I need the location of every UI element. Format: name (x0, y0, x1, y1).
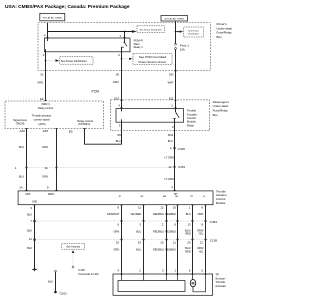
svg-text:YEL/RED: YEL/RED (130, 212, 141, 216)
svg-text:2: 2 (171, 185, 173, 189)
ground G101 (54, 291, 57, 294)
svg-text:2: 2 (118, 53, 120, 57)
svg-text:B14: B14 (168, 133, 174, 137)
wire TAC module pin 8 to throttle motor pin 5 (ORN) (205, 205, 207, 274)
svg-text:C454: C454 (210, 220, 218, 224)
svg-text:3: 3 (43, 53, 45, 57)
under-hood / driver's under-dash fuse/relay box (dashed) (38, 23, 211, 71)
svg-text:See Power: See Power (188, 29, 199, 32)
in-line connector C454 dotted line (35, 220, 209, 222)
svg-text:G101: G101 (60, 292, 68, 296)
svg-text:Distribution: Distribution (188, 33, 200, 36)
svg-text:12: 12 (29, 237, 33, 241)
see power distribution box left (45, 60, 47, 62)
svg-text:D6: D6 (117, 133, 121, 137)
throttle actuator control module relay (116, 109, 184, 123)
TP sensor inner box (118, 281, 185, 292)
svg-text:(Terminals 12-09): (Terminals 12-09) (78, 272, 98, 276)
svg-text:11: 11 (45, 166, 48, 170)
svg-text:Relay control: Relay control (38, 106, 54, 110)
relay coil stubs (47, 38, 49, 41)
svg-text:S23: S23 (169, 73, 174, 77)
svg-text:C109: C109 (78, 268, 85, 272)
connector C325 (174, 147, 176, 149)
svg-text:GRN: GRN (37, 81, 43, 85)
svg-text:GRN: GRN (113, 80, 119, 84)
connector C138 terminals on wires (121, 239, 123, 241)
svg-text:BLU: BLU (186, 212, 191, 216)
wire A26 (BLU) (26, 129, 28, 191)
svg-text:(APS): (APS) (39, 122, 46, 126)
svg-text:4: 4 (170, 147, 172, 151)
svg-text:YEL: YEL (198, 249, 203, 253)
pin 1 stub (124, 32, 126, 39)
svg-text:RED: RED (185, 249, 191, 253)
see grounds box (62, 243, 85, 249)
svg-text:8: 8 (201, 206, 203, 210)
svg-text:GRN: GRN (42, 145, 48, 149)
svg-text:E5: E5 (69, 129, 73, 133)
svg-text:See Power Distribution: See Power Distribution (140, 28, 163, 31)
svg-text:3: 3 (119, 124, 121, 128)
svg-text:6: 6 (174, 223, 176, 227)
svg-text:4: 4 (118, 104, 120, 108)
arrow to see pcm controlled box (121, 58, 123, 60)
wire feed to relay (48, 23, 133, 32)
svg-text:A26: A26 (20, 129, 26, 133)
svg-text:Throttle actuator: Throttle actuator (32, 113, 52, 117)
svg-text:7: 7 (30, 219, 32, 223)
svg-text:X8: X8 (116, 72, 120, 76)
PCM box (dashed) (5, 101, 103, 129)
pin 4 stub (47, 32, 49, 39)
svg-text:BLK: BLK (48, 279, 53, 283)
motor (192, 274, 194, 280)
svg-text:C325: C325 (178, 147, 186, 151)
see power distribution box 2 (184, 27, 204, 37)
svg-text:5: 5 (201, 269, 203, 273)
svg-text:RED/BLU: RED/BLU (153, 247, 164, 251)
wire TAC module pin 12 to throttle actuator pin 3 (RED/BLU) (166, 205, 168, 274)
svg-text:6: 6 (117, 223, 119, 227)
in-line connector C138 dotted line (35, 239, 209, 241)
svg-text:MM: MM (163, 196, 167, 198)
svg-text:BLK: BLK (27, 228, 32, 232)
svg-text:RED: RED (185, 231, 191, 235)
svg-text:BLU: BLU (19, 174, 24, 178)
wire E5 jog to TAC relay pin 3 (85, 122, 122, 144)
svg-text:3: 3 (30, 206, 32, 210)
wire TAC module pin 1 to throttle motor pin 6 (BLU) (192, 205, 194, 274)
svg-text:E9: E9 (40, 97, 44, 101)
connector C351 (174, 166, 176, 168)
svg-text:ORN: ORN (198, 212, 204, 216)
passenger's under-dash fuse/relay box (dashed) (111, 100, 210, 131)
wire TAC module pin 10 to throttle actuator pin 1 (RED/BLK) (177, 205, 179, 274)
throttle actuator control module box (18, 191, 213, 205)
svg-text:YEL: YEL (198, 231, 203, 235)
junction (124, 31, 126, 33)
wire TAC relay pin2 down to TAC module (174, 122, 176, 191)
fuse 1 symbol (175, 43, 177, 45)
svg-text:GND: GND (32, 201, 37, 203)
svg-text:2: 2 (172, 125, 174, 129)
svg-text:8: 8 (117, 206, 119, 210)
connector C454 terminals on wires (121, 220, 123, 222)
svg-text:LT GRN: LT GRN (165, 177, 174, 181)
svg-text:GRN: GRN (114, 230, 120, 234)
svg-text:12: 12 (168, 165, 172, 169)
TP sensor / throttle actuator box (113, 274, 213, 295)
svg-text:8: 8 (201, 223, 203, 227)
svg-text:3: 3 (139, 223, 141, 227)
svg-text:9: 9 (47, 186, 49, 190)
svg-text:MCP: MCP (25, 194, 31, 196)
svg-text:21: 21 (200, 241, 204, 245)
svg-text:11: 11 (173, 241, 176, 245)
svg-text:PA: PA (175, 195, 178, 198)
svg-text:MP: MP (141, 196, 145, 198)
svg-text:Fuse 1: Fuse 1 (180, 43, 190, 47)
in-line connector C351 dotted line (27, 167, 175, 169)
relay pins (121, 100, 123, 109)
svg-text:4: 4 (117, 269, 119, 273)
svg-text:10: 10 (173, 206, 177, 210)
svg-text:20: 20 (187, 241, 191, 245)
wire relay pin3 to PCM (GRN) (45, 52, 47, 101)
svg-text:C138: C138 (210, 239, 218, 243)
svg-text:1: 1 (119, 34, 121, 38)
svg-text:RED/BLK: RED/BLK (165, 247, 176, 251)
svg-text:Throttle: Throttle (187, 109, 197, 113)
svg-text:6: 6 (189, 269, 191, 273)
svg-text:Relay: Relay (187, 123, 195, 127)
relay switch (175, 109, 177, 113)
svg-text:12: 12 (160, 206, 164, 210)
wire below fuse (175, 49, 177, 100)
hot at all times right label box (161, 16, 188, 22)
svg-text:WHT: WHT (168, 80, 174, 84)
svg-text:2: 2 (139, 269, 141, 273)
svg-text:1: 1 (189, 206, 191, 210)
svg-text:LT GRN: LT GRN (165, 156, 174, 160)
svg-text:4: 4 (44, 34, 46, 38)
svg-text:RED/BLK: RED/BLK (165, 230, 176, 234)
C109 connector (72, 266, 74, 268)
svg-text:GRN: GRN (114, 247, 120, 251)
svg-text:See Grounds: See Grounds (66, 246, 80, 249)
svg-text:10: 10 (160, 241, 164, 245)
svg-text:11: 11 (138, 206, 141, 210)
ground wire from TAC module pin 3 (34, 205, 36, 270)
coil stubs (121, 109, 123, 112)
svg-text:GRN/WHT: GRN/WHT (107, 212, 120, 216)
svg-text:BLU: BLU (136, 230, 141, 234)
svg-text:control signal: control signal (34, 118, 50, 122)
svg-text:2: 2 (162, 223, 164, 227)
hot at all times left label box (40, 13, 65, 20)
svg-text:A25: A25 (43, 129, 49, 133)
svg-text:HOT AT ALL TIMES: HOT AT ALL TIMES (43, 17, 63, 20)
arrow to see power distribution (132, 30, 137, 33)
svg-text:RED/BLU: RED/BLU (153, 212, 164, 216)
svg-text:Actuator: Actuator (187, 112, 197, 116)
pin stubs into sensor (121, 274, 123, 281)
svg-text:1: 1 (171, 104, 173, 108)
ground wire 2 to G101 (55, 270, 57, 272)
svg-text:10A: 10A (180, 48, 185, 52)
wire A25 (GRN) (56, 129, 58, 191)
svg-text:PB: PB (190, 196, 193, 198)
svg-text:Box: Box (217, 35, 223, 39)
svg-text:Module: Module (187, 120, 196, 124)
svg-text:M: M (192, 282, 195, 286)
svg-text:BLU: BLU (19, 145, 24, 149)
svg-text:33: 33 (138, 241, 142, 245)
svg-text:SERO: SERO (48, 194, 55, 196)
svg-text:C351: C351 (178, 165, 186, 169)
wire entry ticks (25, 128, 85, 130)
svg-text:NL: NL (119, 196, 122, 198)
svg-text:BLU: BLU (168, 139, 173, 143)
svg-text:1: 1 (15, 166, 17, 170)
svg-text:Module: Module (216, 201, 226, 205)
wire relay pin2 down to TAC relay (YEL) (121, 52, 123, 100)
svg-text:32: 32 (116, 241, 120, 245)
see pcm controlled power source circuit box (133, 54, 172, 65)
svg-text:See PCM Controlled: See PCM Controlled (139, 55, 167, 59)
relay switch (124, 38, 126, 42)
svg-text:BLK: BLK (27, 246, 32, 250)
svg-text:3: 3 (162, 269, 164, 273)
svg-text:RED/BLK: RED/BLK (165, 212, 176, 216)
svg-text:PCM: PCM (92, 89, 100, 93)
svg-text:IG: IG (203, 196, 206, 198)
svg-text:(STOMLV): (STOMLV) (78, 122, 90, 126)
svg-text:GRN: GRN (42, 174, 48, 178)
svg-text:BLU: BLU (136, 247, 141, 251)
svg-text:Box: Box (213, 113, 219, 117)
svg-text:Relay 1: Relay 1 (134, 45, 144, 49)
svg-text:USA: CMBS/PAX Package; Canada:: USA: CMBS/PAX Package; Canada: Premium P… (5, 4, 130, 10)
svg-text:BLU: BLU (116, 139, 121, 143)
svg-text:(TACM): (TACM) (16, 122, 25, 125)
svg-text:HOT AT ALL TIMES: HOT AT ALL TIMES (165, 18, 185, 21)
svg-text:RED/BLU: RED/BLU (153, 230, 164, 234)
wire TAC module pin 8 to throttle actuator pin 4 (GRN/WHT) (121, 205, 123, 274)
svg-text:See Power Distribution: See Power Distribution (61, 59, 87, 63)
svg-text:14: 14 (19, 186, 23, 190)
dashed arrow to C109 (72, 253, 74, 267)
see power distribution box 1 (137, 26, 165, 33)
svg-text:1: 1 (174, 269, 176, 273)
svg-text:Power Source Circuit.: Power Source Circuit. (139, 60, 167, 64)
svg-text:13: 13 (187, 223, 191, 227)
driver's box: wire from hot to fuse 1 (175, 21, 177, 44)
svg-text:BLK: BLK (27, 213, 32, 217)
svg-text:X1: X1 (40, 73, 44, 77)
wire TAC module pin 11 to throttle actuator pin 2 (YEL/RED) (143, 205, 145, 274)
svg-text:(MRLY): (MRLY) (41, 103, 50, 106)
svg-text:Control: Control (187, 116, 196, 120)
svg-text:Actuator: Actuator (215, 284, 226, 288)
PGM-FI main relay 1 (45, 38, 131, 52)
